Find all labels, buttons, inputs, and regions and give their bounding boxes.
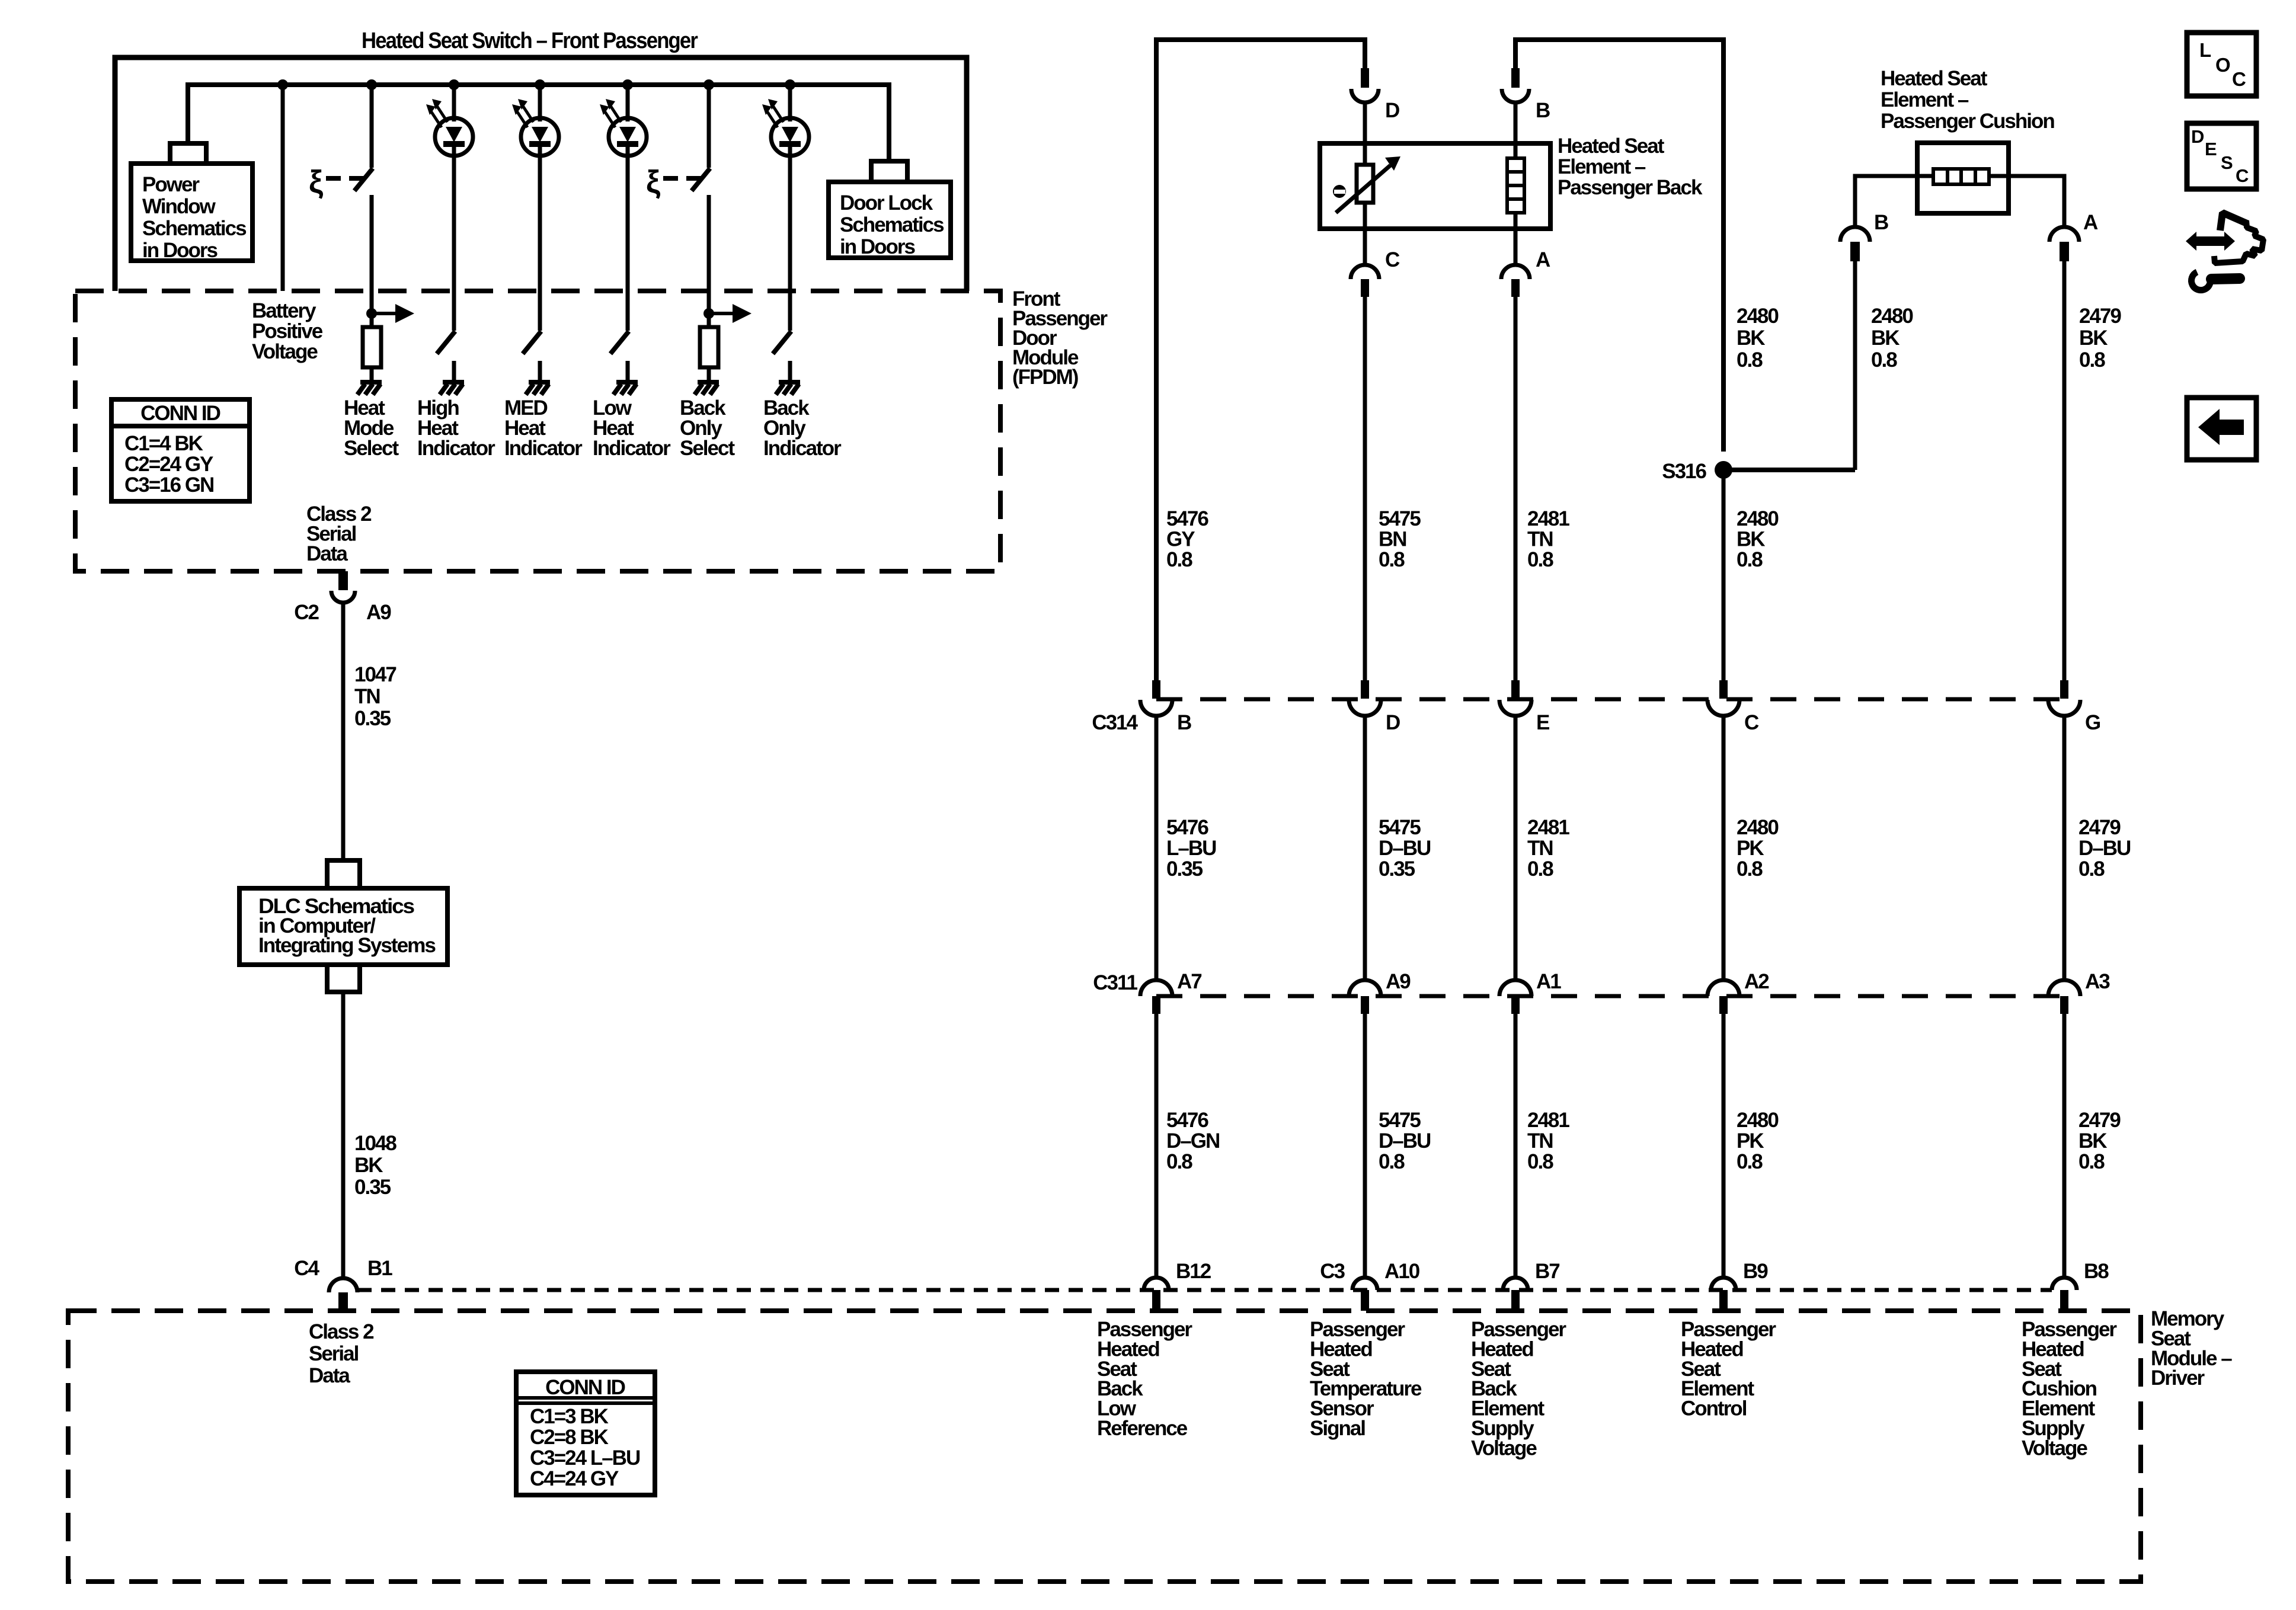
svg-text:D: D (1385, 99, 1399, 122)
connector C311 pin A2 (1707, 980, 1739, 996)
box - DLC Schematics in Computer/Integrating Systems (239, 888, 447, 965)
connector C311 pin A9 (1349, 980, 1381, 996)
switch - Back Only Indicator (773, 331, 791, 354)
svg-text:B8: B8 (2084, 1260, 2109, 1283)
connector memory seat module pin B12 (1144, 1278, 1169, 1290)
svg-text:0.8: 0.8 (2078, 857, 2105, 881)
svg-text:B: B (1536, 99, 1550, 122)
svg-text:D–BU: D–BU (1379, 837, 1431, 860)
wire below C314 D (1363, 716, 1367, 980)
svg-text:Select: Select (344, 437, 399, 460)
svg-text:CONN ID: CONN ID (545, 1376, 625, 1399)
svg-text:Heated Seat Switch – Front Pas: Heated Seat Switch – Front Passenger (362, 28, 698, 53)
wire 2480 BK 0.8 - cushion B to S316 (1853, 261, 1857, 470)
svg-text:2481: 2481 (1527, 816, 1569, 839)
connector memory seat module pin B9 (1711, 1278, 1736, 1290)
junction on bus at heat mode select (366, 79, 377, 90)
svg-text:O: O (2215, 54, 2230, 76)
wire - battery positive voltage into FPDM (281, 85, 285, 291)
svg-text:2480: 2480 (1737, 816, 1779, 839)
junction with signal arrow - heat mode select (366, 308, 377, 319)
icon - DESC navigation box (2187, 123, 2256, 189)
ground - MED Heat Indicator (529, 380, 550, 385)
wire below C311 A9 (1363, 1014, 1367, 1279)
wire below C311 A7 (1155, 1014, 1159, 1279)
wire - MED Heat Indicator switch to ground (538, 361, 542, 380)
svg-text:Signal: Signal (1310, 1417, 1365, 1440)
connector C2/A9 socket arc (331, 591, 355, 603)
svg-text:A2: A2 (1744, 970, 1769, 993)
svg-text:BN: BN (1379, 528, 1406, 551)
svg-text:Indicator: Indicator (504, 437, 583, 460)
svg-text:D: D (2191, 126, 2204, 147)
connector C314 pin B (1152, 680, 1160, 699)
wire - D into element box (1363, 103, 1367, 143)
svg-text:Driver: Driver (2151, 1366, 2205, 1390)
wire below C314 B (1155, 716, 1159, 980)
switch - High Heat Indicator (437, 331, 455, 354)
svg-text:D–GN: D–GN (1166, 1129, 1219, 1153)
svg-text:2481: 2481 (1527, 1109, 1569, 1132)
table - CONN ID for switch connectors (111, 399, 250, 501)
svg-text:A10: A10 (1384, 1260, 1420, 1283)
thermistor RT1 - seat back temperature sensor (1363, 143, 1367, 165)
junction on bus at battery feed (277, 79, 288, 90)
component box - Heated Seat Element Passenger Cushion (1917, 143, 2009, 213)
wire - back only select to junction (707, 195, 711, 313)
box - Door Lock Schematics in Doors (829, 182, 951, 258)
svg-text:B: B (1874, 211, 1888, 234)
svg-text:0.35: 0.35 (1379, 857, 1415, 881)
svg-text:C: C (1744, 711, 1759, 734)
connector C311 pin A7 (1140, 980, 1172, 996)
wire - B into element box (1514, 103, 1518, 143)
box - Power Window Schematics in Doors (131, 164, 252, 261)
svg-text:Heated Seat: Heated Seat (1558, 135, 1665, 158)
svg-text:0.8: 0.8 (1737, 857, 1763, 881)
svg-text:5475: 5475 (1379, 1109, 1421, 1132)
connector C311 pin A3 (2048, 980, 2080, 996)
svg-text:2480: 2480 (1737, 305, 1779, 328)
wire - hook from seat back heater feed (1515, 40, 1723, 452)
svg-text:A1: A1 (1536, 970, 1561, 993)
wire - battery feed bus inside switch (186, 82, 889, 87)
wire - drop to door lock schematics (887, 82, 891, 160)
svg-text:C3=24 L–BU: C3=24 L–BU (530, 1446, 640, 1470)
wire - C down to C314 B? no, to C314 D column (1363, 297, 1367, 680)
svg-text:BK: BK (1737, 327, 1765, 350)
svg-text:C3: C3 (1320, 1260, 1345, 1283)
wire 2479 BK 0.8 - cushion A down to C314 G (2062, 261, 2067, 680)
svg-text:Control: Control (1681, 1397, 1747, 1420)
wire - resistor to ground (370, 367, 374, 380)
svg-text:2479: 2479 (2078, 1109, 2121, 1132)
svg-text:Voltage: Voltage (252, 340, 318, 363)
switch - Low Heat Indicator (610, 331, 629, 354)
wire - drop to power window schematics (186, 82, 190, 142)
svg-text:Element –: Element – (1558, 155, 1646, 178)
svg-text:B9: B9 (1743, 1260, 1768, 1283)
svg-text:Voltage: Voltage (2022, 1436, 2087, 1459)
connector bracket into DLC box (top) (327, 860, 360, 888)
svg-text:D–BU: D–BU (2078, 837, 2131, 860)
wire below C314 G (2062, 716, 2067, 980)
svg-text:2480: 2480 (1737, 507, 1779, 530)
svg-text:1047: 1047 (354, 663, 396, 686)
connector C314 pin E (1511, 680, 1520, 699)
svg-text:C: C (1385, 248, 1400, 271)
connector bracket out of DLC box (bottom) (327, 965, 360, 992)
svg-text:Data: Data (309, 1364, 350, 1387)
LED D - Low Heat Indicator (622, 79, 633, 90)
wire - cushion A side (1989, 176, 2064, 227)
svg-text:TN: TN (1527, 837, 1553, 860)
ground - Back Only Indicator (779, 380, 800, 385)
svg-text:C: C (2236, 165, 2249, 186)
switch S1 - Heat Mode Select (370, 85, 374, 168)
svg-text:C: C (2232, 68, 2246, 90)
connector C2 pin A9 - inline connector (pin) (338, 571, 348, 590)
inline connector C311 (dashed interface) (1156, 994, 2064, 998)
junction on bus at back only select (703, 79, 714, 90)
svg-text:Indicator: Indicator (763, 437, 842, 460)
component box - Heated Seat Element Passenger Back (1320, 143, 1550, 229)
resistor R2 - back only select pull-down (707, 313, 711, 327)
svg-text:5475: 5475 (1379, 507, 1421, 530)
svg-text:Positive: Positive (252, 320, 323, 343)
junction with signal arrow - back only select (703, 308, 714, 319)
ground - back only select (698, 380, 719, 385)
svg-text:BK: BK (1871, 327, 1900, 350)
svg-text:Data: Data (306, 542, 348, 565)
icon - back arrow box (2187, 398, 2256, 460)
svg-text:0.35: 0.35 (1166, 857, 1203, 881)
svg-text:C2=8 BK: C2=8 BK (530, 1426, 609, 1449)
connector C4/B1 socket arc (329, 1278, 357, 1292)
svg-text:C314: C314 (1092, 711, 1138, 734)
svg-text:G: G (2085, 711, 2100, 734)
svg-text:Battery: Battery (252, 299, 316, 322)
svg-text:BK: BK (1737, 528, 1765, 551)
svg-text:E: E (1536, 711, 1549, 734)
svg-text:BK: BK (2079, 327, 2108, 350)
svg-text:(FPDM): (FPDM) (1012, 366, 1078, 389)
svg-text:0.8: 0.8 (1737, 1150, 1763, 1173)
ground - High Heat Indicator (443, 380, 464, 385)
svg-text:Indicator: Indicator (417, 437, 495, 460)
svg-text:C3=16 GN: C3=16 GN (124, 473, 213, 497)
svg-text:C2=24 GY: C2=24 GY (124, 453, 213, 476)
wire - A down to C314 E column (1514, 297, 1518, 680)
svg-text:C4: C4 (294, 1257, 319, 1280)
svg-text:L–BU: L–BU (1166, 837, 1216, 860)
svg-text:0.8: 0.8 (1871, 348, 1897, 372)
wire - resistor to ground (707, 367, 711, 380)
svg-text:GY: GY (1166, 528, 1195, 551)
wire below C311 A2 (1722, 1014, 1726, 1279)
connector socket C arc - element back (1363, 229, 1367, 265)
svg-text:TN: TN (1527, 1129, 1553, 1153)
svg-text:D: D (1386, 711, 1400, 734)
svg-text:TN: TN (354, 685, 380, 708)
connector C314 pin C (1719, 680, 1728, 699)
wire 1048 BK 0.35 - DLC to memory seat module (341, 992, 346, 1278)
svg-text:S: S (2221, 152, 2233, 173)
svg-text:0.8: 0.8 (1379, 548, 1405, 571)
svg-text:C1=4 BK: C1=4 BK (124, 432, 203, 455)
svg-text:0.8: 0.8 (1527, 857, 1553, 881)
wire 1047 TN 0.35 - serial data to DLC (341, 603, 346, 860)
svg-text:0.8: 0.8 (1379, 1150, 1405, 1173)
wire below C314 E (1514, 716, 1518, 980)
connector pin C (1361, 279, 1369, 297)
wire - High Heat Indicator switch to ground (452, 361, 456, 380)
connector C311 pin A1 (1499, 980, 1531, 996)
wire - S316 branch to cushion element (1723, 468, 1855, 472)
heater element - cushion (4 segment bar) (1933, 169, 1989, 184)
svg-text:S316: S316 (1662, 460, 1706, 483)
svg-text:ξ: ξ (309, 164, 324, 200)
svg-text:D–BU: D–BU (1379, 1129, 1431, 1153)
svg-text:Power: Power (142, 173, 200, 196)
svg-text:C2: C2 (294, 601, 319, 624)
svg-text:Indicator: Indicator (593, 437, 671, 460)
connector pin A (1511, 279, 1520, 297)
connector socket A arc - element back (1514, 229, 1518, 265)
svg-text:5476: 5476 (1166, 1109, 1208, 1132)
svg-text:Voltage: Voltage (1471, 1436, 1537, 1459)
connector C4 pin B1 (pin) (338, 1292, 348, 1311)
svg-text:5476: 5476 (1166, 507, 1208, 530)
svg-text:0.8: 0.8 (1166, 1150, 1192, 1173)
wire below C314 C (1722, 716, 1726, 980)
svg-text:BK: BK (2078, 1129, 2107, 1153)
svg-text:Door Lock: Door Lock (840, 191, 933, 215)
LED D - Back Only Indicator (785, 79, 795, 90)
table - CONN ID for memory seat module connectors (516, 1372, 655, 1495)
svg-text:5476: 5476 (1166, 816, 1208, 839)
svg-text:2479: 2479 (2078, 816, 2121, 839)
svg-text:BK: BK (354, 1154, 383, 1177)
svg-text:Passenger Cushion: Passenger Cushion (1881, 110, 2054, 133)
svg-text:0.8: 0.8 (1527, 1150, 1553, 1173)
svg-text:L: L (2199, 39, 2211, 61)
svg-text:0.35: 0.35 (354, 1176, 391, 1199)
svg-text:0.35: 0.35 (354, 707, 391, 730)
svg-text:A3: A3 (2085, 970, 2110, 993)
icon - component view arrow and wrench (2186, 232, 2196, 251)
svg-text:C311: C311 (1093, 971, 1137, 994)
switch - MED Heat Indicator (523, 331, 541, 354)
svg-text:A9: A9 (366, 601, 391, 624)
connector pin B - cushion (1850, 242, 1860, 261)
svg-text:Class 2: Class 2 (309, 1320, 374, 1343)
module box - Front Passenger Door Module FPDM (dashed) (75, 291, 1000, 571)
svg-text:A7: A7 (1177, 970, 1201, 993)
svg-text:Schematics: Schematics (840, 213, 944, 236)
svg-text:PK: PK (1737, 837, 1764, 860)
svg-text:0.8: 0.8 (2078, 1150, 2105, 1173)
resistor R1 - heat mode select pull-down (370, 313, 374, 327)
svg-text:B7: B7 (1535, 1260, 1559, 1283)
svg-text:A: A (1536, 248, 1550, 271)
connector memory seat module pin B8 (2052, 1278, 2077, 1290)
connector pin A - cushion (2060, 242, 2069, 261)
splice S316 (1715, 461, 1732, 479)
svg-text:A9: A9 (1386, 970, 1411, 993)
svg-text:Integrating Systems: Integrating Systems (258, 934, 436, 957)
connector pin B - element back (1511, 68, 1520, 88)
switch S2 - Back Only Select (707, 85, 711, 168)
connector socket D arc (1351, 89, 1379, 103)
connector socket B arc (1502, 89, 1529, 103)
connector memory seat module pin C3/A10 (1352, 1278, 1377, 1290)
svg-text:0.8: 0.8 (1737, 348, 1763, 372)
svg-text:in Doors: in Doors (142, 239, 218, 262)
svg-text:Window: Window (142, 195, 216, 218)
wire - heat mode select to junction (370, 195, 374, 313)
svg-text:in Doors: in Doors (840, 235, 915, 258)
svg-text:C1=3 BK: C1=3 BK (530, 1405, 609, 1428)
wire - cushion B side (1855, 176, 1933, 227)
heated seat switch assembly box U1 - Heated Seat Switch Front Passenger (115, 57, 967, 291)
wire 2480 BK 0.8 - S316 down to C314 C (1722, 470, 1726, 680)
module box - Memory Seat Module Driver (dashed) (68, 1311, 2141, 1582)
svg-text:2479: 2479 (2079, 305, 2121, 328)
connector socket B arc - cushion (1840, 227, 1870, 242)
LED D - High Heat Indicator (449, 79, 459, 90)
svg-text:Select: Select (680, 437, 735, 460)
svg-text:PK: PK (1737, 1129, 1764, 1153)
LED D - MED Heat Indicator (535, 79, 545, 90)
svg-text:2481: 2481 (1527, 507, 1569, 530)
svg-text:B: B (1177, 711, 1191, 734)
svg-text:TN: TN (1527, 528, 1553, 551)
wire - hook from seat back thermistor feed (1156, 40, 1365, 680)
ground - Low Heat Indicator (616, 380, 638, 385)
svg-text:1048: 1048 (354, 1132, 396, 1155)
connector pin D - element back (1361, 68, 1369, 88)
svg-text:E: E (2205, 139, 2217, 159)
wire - Low Heat Indicator switch to ground (626, 361, 630, 380)
svg-text:2480: 2480 (1871, 305, 1913, 328)
icon - LOC navigation box (2187, 33, 2256, 96)
wire - Back Only Indicator switch to ground (788, 361, 792, 380)
ground - heat mode select (360, 380, 382, 385)
svg-text:ξ: ξ (646, 164, 661, 200)
svg-text:B12: B12 (1176, 1260, 1211, 1283)
memory seat module connector interface (fine dashed) (357, 1288, 2052, 1292)
connector C314 pin D (1361, 680, 1369, 699)
svg-text:Element –: Element – (1881, 88, 1969, 111)
svg-text:2480: 2480 (1737, 1109, 1779, 1132)
wire below C311 A3 (2062, 1014, 2067, 1279)
svg-text:0.8: 0.8 (1527, 548, 1553, 571)
svg-text:CONN ID: CONN ID (140, 402, 220, 425)
svg-text:Passenger Back: Passenger Back (1558, 176, 1703, 199)
inline connector C314 (dashed interface) (1156, 697, 2064, 702)
connector plug to door lock circuit (871, 161, 907, 182)
connector C314 pin G (2060, 680, 2068, 699)
svg-text:Heated Seat: Heated Seat (1881, 67, 1988, 90)
svg-text:C4=24 GY: C4=24 GY (530, 1467, 619, 1490)
connector socket A arc - cushion (2049, 227, 2079, 242)
svg-text:0.8: 0.8 (1737, 548, 1763, 571)
svg-text:5475: 5475 (1379, 816, 1421, 839)
svg-text:0.8: 0.8 (1166, 548, 1192, 571)
wire below C311 A1 (1514, 1014, 1518, 1279)
svg-text:Serial: Serial (309, 1342, 359, 1365)
svg-text:Reference: Reference (1097, 1417, 1188, 1440)
svg-text:A: A (2083, 211, 2098, 234)
svg-text:Schematics: Schematics (142, 217, 247, 240)
svg-text:B1: B1 (367, 1257, 392, 1280)
connector plug to power window circuit (170, 143, 206, 164)
heater element - seat back (1514, 143, 1518, 158)
connector memory seat module pin B7 (1503, 1278, 1528, 1290)
svg-text:0.8: 0.8 (2079, 348, 2105, 372)
